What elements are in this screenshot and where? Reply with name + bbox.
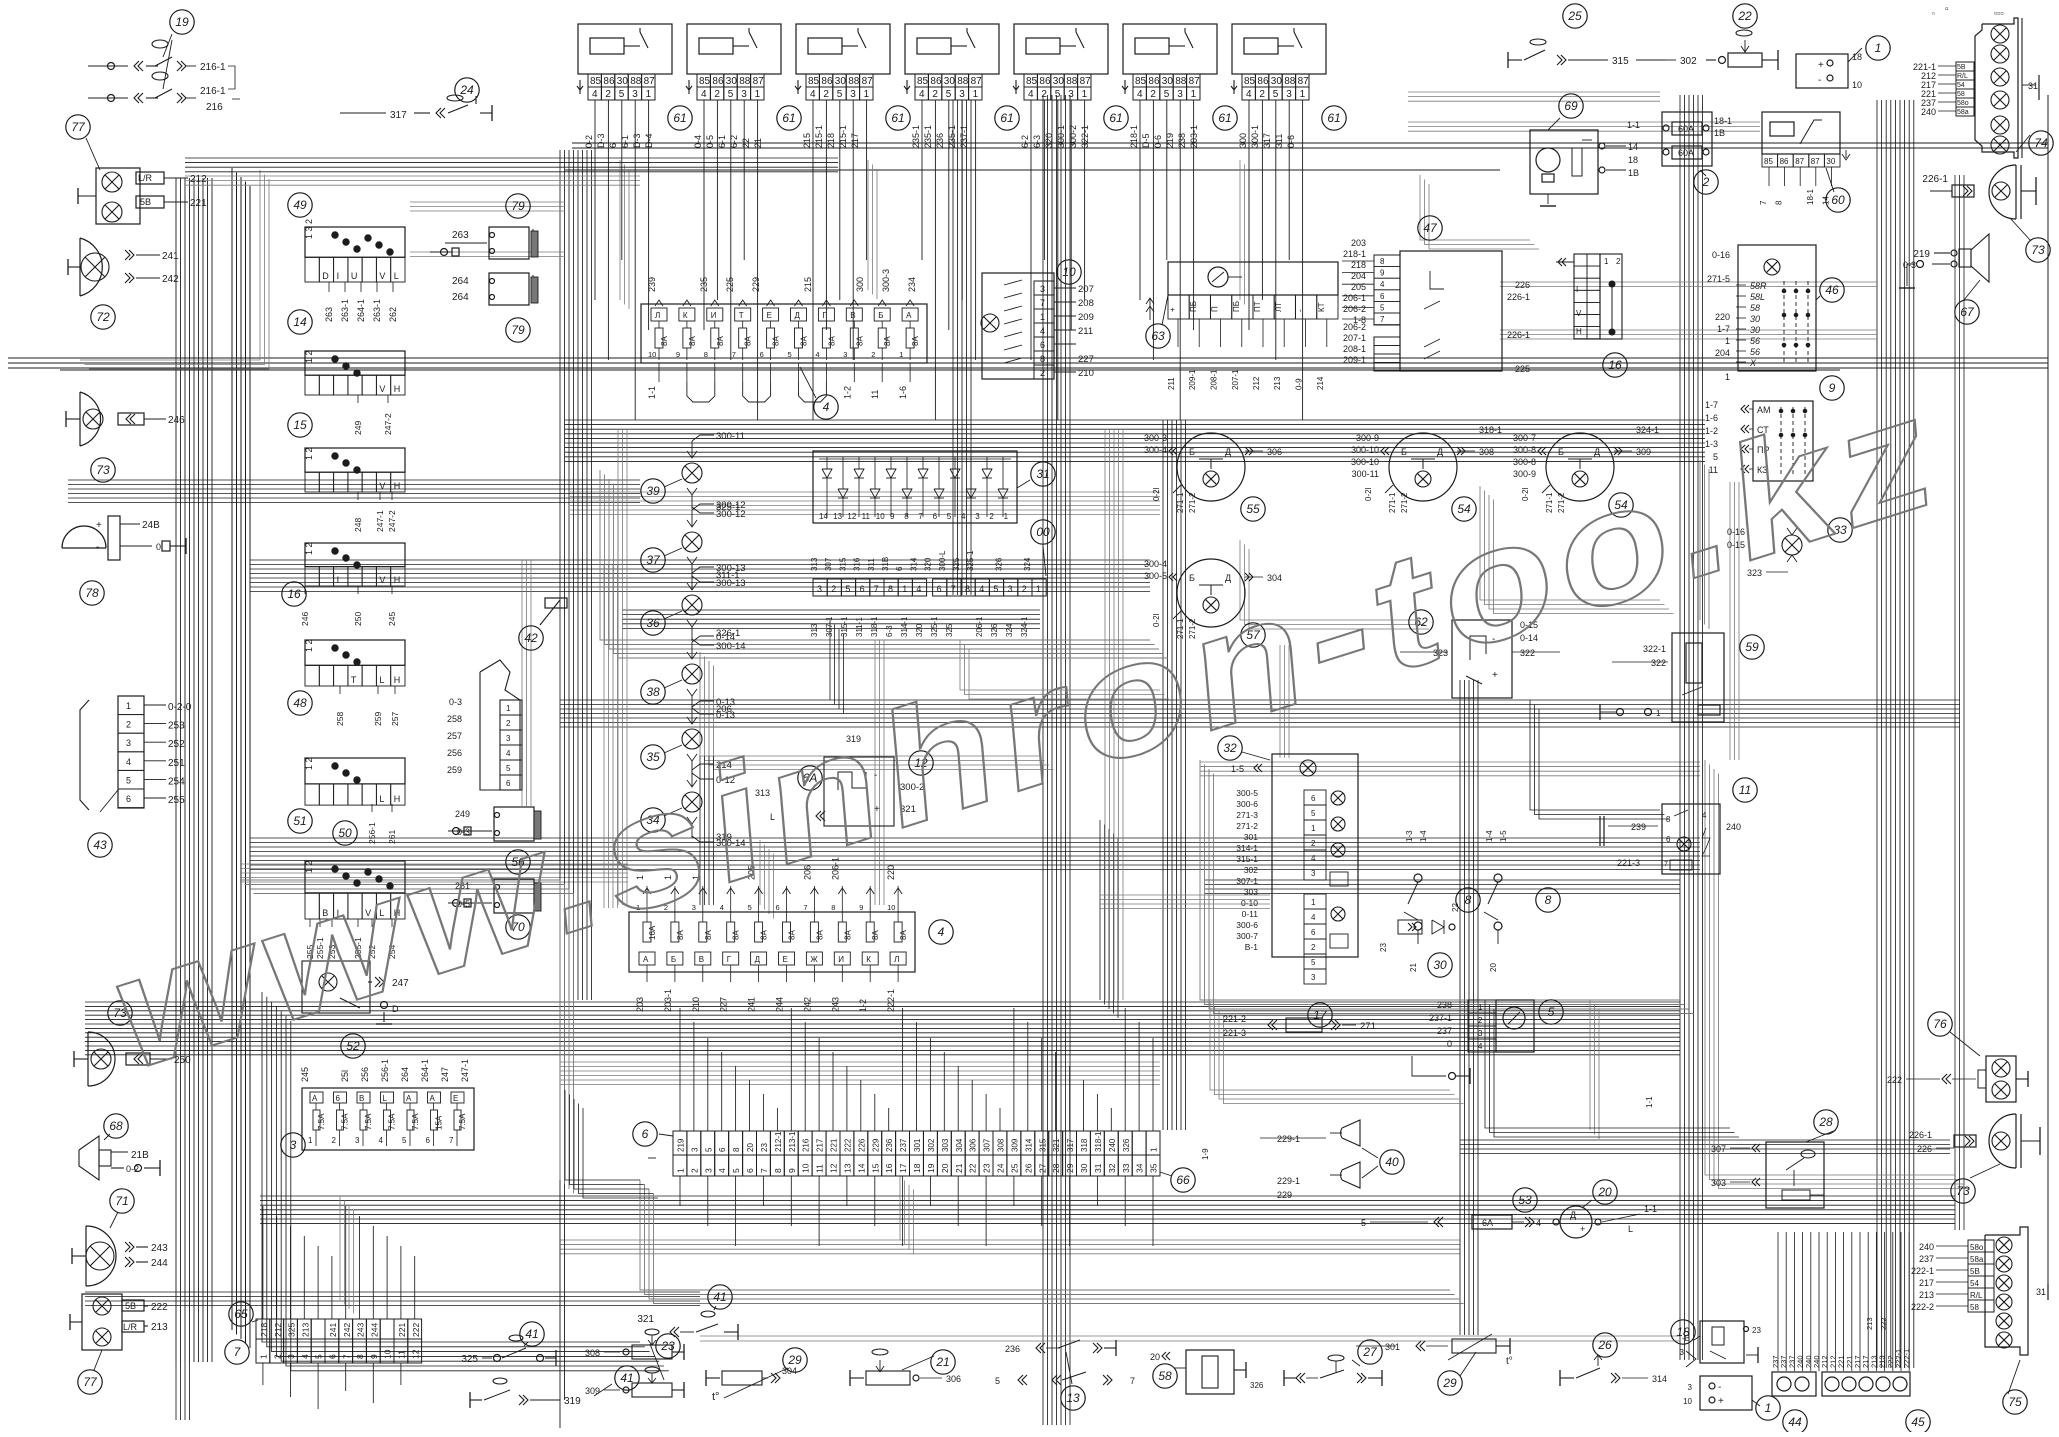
svg-text:5: 5 [995, 1376, 1000, 1386]
svg-text:31B: 31B [881, 557, 890, 571]
svg-text:77: 77 [83, 1375, 98, 1389]
svg-text:259: 259 [447, 765, 462, 775]
svg-text:ПБ: ПБ [1232, 301, 1241, 312]
svg-text:257: 257 [447, 731, 462, 741]
svg-text:248: 248 [353, 518, 363, 532]
svg-text:1: 1 [506, 704, 511, 713]
svg-text:246: 246 [168, 415, 185, 426]
svg-text:30: 30 [726, 76, 738, 87]
svg-text:30: 30 [1826, 157, 1835, 166]
svg-text:203: 203 [1351, 238, 1366, 248]
svg-text:300-10: 300-10 [1351, 445, 1379, 455]
svg-text:247-2: 247-2 [387, 510, 397, 532]
svg-text:2: 2 [689, 1168, 699, 1173]
svg-text:60A: 60A [1678, 148, 1694, 158]
svg-text:215: 215 [802, 133, 812, 148]
svg-text:218: 218 [259, 1323, 269, 1337]
svg-text:31: 31 [1093, 1163, 1103, 1173]
svg-text:308: 308 [585, 1348, 600, 1358]
svg-text:К: К [866, 955, 871, 964]
svg-text:66: 66 [1176, 1173, 1190, 1187]
svg-text:1B: 1B [1628, 168, 1639, 178]
svg-text:235-1: 235-1 [923, 125, 933, 148]
svg-text:4: 4 [1311, 913, 1316, 922]
svg-text:204: 204 [1715, 348, 1730, 358]
svg-text:203: 203 [635, 997, 645, 1012]
svg-text:4: 4 [379, 1136, 384, 1145]
svg-text:300-4: 300-4 [1144, 445, 1167, 455]
svg-text:0-5: 0-5 [705, 135, 715, 148]
svg-text:3: 3 [1688, 1383, 1693, 1392]
svg-text:307: 307 [824, 557, 833, 571]
svg-text:219: 219 [1913, 249, 1930, 260]
svg-text:7: 7 [1040, 298, 1045, 308]
svg-text:21B: 21B [131, 1150, 149, 1161]
svg-text:3: 3 [1680, 1348, 1685, 1357]
svg-text:4: 4 [1137, 89, 1143, 100]
svg-text:88: 88 [630, 76, 642, 87]
svg-text:58: 58 [1957, 91, 1965, 98]
svg-text:258: 258 [335, 712, 345, 726]
svg-text:8A: 8A [688, 336, 697, 346]
svg-text:6: 6 [1380, 292, 1385, 301]
svg-text:72: 72 [96, 310, 110, 324]
svg-text:87: 87 [971, 76, 983, 87]
svg-text:47: 47 [1423, 221, 1438, 235]
svg-text:1: 1 [1478, 1003, 1483, 1012]
svg-text:E: E [453, 1094, 458, 1103]
svg-text:15: 15 [870, 1163, 880, 1173]
svg-text:218: 218 [826, 133, 836, 148]
svg-text:6: 6 [1666, 835, 1671, 844]
svg-text:48: 48 [293, 696, 307, 710]
svg-text:324-1: 324-1 [1020, 616, 1029, 637]
svg-text:29: 29 [1065, 1163, 1075, 1173]
svg-text:22: 22 [741, 138, 751, 148]
svg-text:257: 257 [390, 712, 400, 726]
svg-text:3: 3 [843, 350, 847, 359]
svg-text:226-1: 226-1 [1909, 1130, 1932, 1140]
svg-text:22: 22 [968, 1163, 978, 1173]
svg-text:7.5A: 7.5A [317, 1113, 326, 1130]
svg-text:311: 311 [867, 558, 876, 571]
svg-text:L: L [383, 1094, 388, 1103]
svg-text:30: 30 [1750, 325, 1760, 335]
svg-text:213: 213 [300, 1323, 310, 1337]
svg-text:Д: Д [1570, 1210, 1576, 1220]
svg-text:73: 73 [1956, 1184, 1970, 1198]
svg-text:8: 8 [1545, 893, 1552, 907]
svg-text:313: 313 [810, 557, 819, 571]
svg-text:10: 10 [887, 903, 895, 912]
svg-text:8A: 8A [800, 336, 809, 346]
svg-text:5B: 5B [1970, 1267, 1980, 1276]
svg-text:4: 4 [1246, 89, 1252, 100]
svg-text:9: 9 [369, 1354, 379, 1359]
svg-text:249: 249 [353, 421, 363, 435]
svg-text:23: 23 [982, 1163, 992, 1173]
svg-text:220: 220 [1715, 312, 1730, 322]
svg-text:264: 264 [452, 276, 469, 287]
svg-text:300-6: 300-6 [1236, 799, 1258, 809]
svg-text:3: 3 [286, 1354, 296, 1359]
svg-text:206-1: 206-1 [975, 616, 984, 637]
svg-text:2: 2 [1259, 89, 1265, 100]
svg-text:314: 314 [1024, 1138, 1033, 1152]
svg-text:217: 217 [850, 133, 860, 148]
svg-text:243: 243 [830, 997, 840, 1012]
svg-text:7: 7 [918, 512, 923, 521]
svg-text:213: 213 [1865, 1317, 1874, 1330]
svg-text:225: 225 [1515, 364, 1530, 374]
svg-text:1: 1 [1604, 257, 1609, 266]
svg-text:222-1: 222-1 [1911, 1266, 1934, 1276]
svg-text:0-11: 0-11 [1242, 909, 1259, 919]
svg-text:65: 65 [234, 1307, 248, 1321]
svg-text:210: 210 [1078, 368, 1094, 379]
svg-text:244: 244 [151, 1258, 168, 1269]
svg-text:8A: 8A [843, 930, 852, 940]
svg-text:25: 25 [1009, 1163, 1019, 1173]
svg-text:2: 2 [871, 350, 875, 359]
svg-text:10: 10 [1062, 265, 1076, 279]
svg-text:300-9: 300-9 [1356, 433, 1379, 443]
svg-text:7: 7 [1130, 1376, 1135, 1386]
svg-text:262: 262 [388, 307, 398, 322]
svg-text:315: 315 [1038, 1138, 1047, 1152]
svg-text:2: 2 [1022, 584, 1027, 594]
svg-text:49: 49 [293, 198, 307, 212]
svg-text:60A: 60A [1678, 124, 1694, 134]
svg-text:322-1: 322-1 [1643, 644, 1666, 654]
svg-text:8: 8 [1465, 893, 1472, 907]
svg-text:10: 10 [1852, 80, 1862, 90]
svg-text:3: 3 [817, 584, 822, 594]
svg-text:2: 2 [1041, 89, 1047, 100]
svg-text:1-6: 1-6 [898, 386, 908, 399]
svg-text:218-1: 218-1 [1129, 125, 1139, 148]
svg-text:227: 227 [1078, 354, 1094, 365]
svg-text:8A: 8A [883, 336, 892, 346]
svg-text:216-1: 216-1 [200, 86, 226, 97]
svg-text:264-1: 264-1 [420, 1059, 430, 1082]
svg-text:250: 250 [353, 612, 363, 626]
svg-text:L/R: L/R [123, 1322, 138, 1332]
svg-text:215-1: 215-1 [838, 125, 848, 148]
svg-text:85: 85 [917, 76, 929, 87]
svg-text:255: 255 [168, 795, 185, 806]
svg-text:251: 251 [168, 758, 185, 769]
svg-text:314-1: 314-1 [900, 616, 909, 637]
svg-text:5: 5 [506, 764, 511, 773]
svg-text:75: 75 [2008, 1395, 2022, 1409]
svg-text:263: 263 [324, 307, 334, 322]
svg-text:300-11: 300-11 [716, 431, 745, 442]
svg-text:304: 304 [955, 1138, 964, 1152]
svg-text:А: А [643, 955, 649, 964]
svg-text:88: 88 [1175, 76, 1187, 87]
svg-text:14: 14 [1628, 142, 1638, 152]
svg-text:20: 20 [746, 1143, 755, 1152]
svg-text:88: 88 [957, 76, 969, 87]
svg-text:24: 24 [996, 1163, 1006, 1173]
svg-text:5: 5 [704, 1147, 713, 1152]
svg-text:-: - [1818, 75, 1821, 86]
svg-text:241: 241 [328, 1323, 338, 1337]
svg-text:1: 1 [1725, 372, 1730, 382]
svg-text:4: 4 [701, 89, 707, 100]
svg-text:8A: 8A [760, 930, 769, 940]
svg-text:23: 23 [660, 1339, 675, 1353]
svg-text:6: 6 [328, 1354, 338, 1359]
svg-text:300-1: 300-1 [1250, 125, 1260, 148]
svg-text:207-1: 207-1 [1231, 369, 1240, 390]
svg-text:240: 240 [1108, 1138, 1117, 1152]
svg-text:58R: 58R [1750, 281, 1767, 291]
svg-text:235: 235 [699, 277, 709, 292]
svg-text:R/L: R/L [1957, 73, 1968, 80]
svg-text:271-3: 271-3 [1236, 810, 1258, 820]
svg-text:61: 61 [891, 111, 904, 125]
svg-text:325: 325 [287, 1323, 297, 1337]
svg-text:68: 68 [109, 1119, 123, 1133]
svg-text:1: 1 [1082, 89, 1088, 100]
svg-text:4: 4 [823, 400, 830, 414]
svg-text:78: 78 [85, 586, 99, 600]
svg-text:5: 5 [619, 89, 625, 100]
svg-text:86: 86 [1148, 76, 1160, 87]
svg-text:23: 23 [760, 1143, 769, 1152]
svg-text:208-1: 208-1 [1210, 369, 1219, 390]
svg-text:H: H [394, 794, 401, 804]
svg-text:+: + [1580, 1224, 1585, 1234]
svg-text:L: L [394, 271, 399, 281]
svg-text:8A: 8A [855, 336, 864, 346]
svg-text:B-1: B-1 [1245, 942, 1259, 952]
svg-text:213: 213 [1273, 376, 1282, 390]
svg-text:263-1: 263-1 [340, 299, 350, 322]
svg-text:300-7: 300-7 [1513, 433, 1536, 443]
svg-text:264-1: 264-1 [356, 299, 366, 322]
svg-text:6: 6 [1040, 340, 1045, 350]
svg-text:15A: 15A [435, 1115, 444, 1130]
svg-text:10: 10 [801, 1163, 811, 1173]
svg-text:86: 86 [603, 76, 615, 87]
svg-text:Д: Д [795, 311, 801, 320]
svg-text:1-5: 1-5 [1499, 830, 1508, 842]
svg-text:A: A [430, 1094, 436, 1103]
svg-text:Д: Д [1225, 447, 1231, 457]
svg-text:21: 21 [1409, 963, 1418, 972]
svg-text:303: 303 [941, 1138, 950, 1152]
svg-text:-: - [96, 542, 99, 553]
svg-text:4: 4 [717, 1168, 727, 1173]
svg-text:308: 308 [1479, 447, 1494, 457]
svg-text:307: 307 [1711, 1144, 1726, 1154]
svg-text:3: 3 [1008, 584, 1013, 594]
svg-text:1: 1 [1725, 336, 1730, 346]
svg-text:0-2l: 0-2l [1152, 487, 1161, 501]
svg-text:3: 3 [1177, 89, 1183, 100]
svg-text:311-1: 311-1 [716, 570, 740, 581]
svg-text:X: X [1749, 358, 1757, 368]
svg-text:I: I [337, 575, 340, 585]
svg-text:2: 2 [932, 89, 938, 100]
svg-text:271-1: 271-1 [1388, 492, 1397, 513]
svg-text:23: 23 [1379, 943, 1388, 952]
svg-text:306: 306 [1267, 447, 1282, 457]
svg-text:61: 61 [1327, 111, 1340, 125]
svg-text:К: К [683, 311, 688, 320]
svg-text:213: 213 [151, 1322, 168, 1333]
svg-text:12: 12 [847, 512, 856, 521]
svg-text:38: 38 [646, 685, 660, 699]
svg-text:214: 214 [1316, 376, 1325, 390]
svg-text:7: 7 [759, 1168, 769, 1173]
svg-text:53: 53 [1518, 1193, 1532, 1207]
svg-text:52: 52 [346, 1039, 360, 1053]
svg-text:309: 309 [585, 1386, 600, 1396]
svg-text:7.5A: 7.5A [341, 1113, 350, 1130]
svg-text:8A: 8A [911, 336, 920, 346]
svg-text:7: 7 [874, 584, 879, 594]
svg-text:Л: Л [894, 955, 899, 964]
svg-text:14: 14 [819, 512, 828, 521]
svg-text:19: 19 [926, 1163, 936, 1173]
svg-text:24B: 24B [142, 520, 160, 531]
svg-text:7.5A: 7.5A [388, 1113, 397, 1130]
svg-text:16: 16 [884, 1163, 894, 1173]
svg-text:234: 234 [907, 277, 917, 292]
svg-text:L: L [379, 794, 384, 804]
svg-text:0-9: 0-9 [1295, 378, 1304, 390]
svg-text:37: 37 [646, 553, 661, 567]
svg-text:324-1: 324-1 [1636, 425, 1659, 435]
svg-text:20: 20 [940, 1163, 950, 1173]
svg-text:1 2: 1 2 [304, 757, 314, 770]
svg-text:Е: Е [783, 955, 788, 964]
svg-text:61: 61 [1109, 111, 1122, 125]
svg-text:241: 241 [162, 251, 179, 262]
svg-text:14: 14 [1821, 196, 1830, 205]
svg-text:87: 87 [753, 76, 765, 87]
svg-text:4: 4 [126, 757, 131, 767]
svg-text:229-1: 229-1 [1277, 1176, 1300, 1186]
svg-text:1-1: 1-1 [647, 386, 657, 399]
svg-text:302: 302 [1680, 56, 1697, 67]
svg-text:30: 30 [835, 76, 847, 87]
svg-text:6: 6 [126, 794, 131, 804]
svg-text:221-3: 221-3 [1223, 1028, 1246, 1038]
svg-text:2: 2 [714, 89, 720, 100]
svg-text:1: 1 [1191, 89, 1197, 100]
svg-text:6: 6 [426, 1136, 431, 1145]
svg-text:7: 7 [341, 1354, 351, 1359]
svg-text:326: 326 [990, 623, 999, 637]
svg-text:5: 5 [837, 89, 843, 100]
svg-text:H: H [394, 481, 401, 491]
svg-text:6-1: 6-1 [717, 135, 727, 148]
svg-text:Б: Б [1401, 447, 1407, 457]
svg-text:23: 23 [1752, 1326, 1761, 1335]
svg-text:9: 9 [676, 350, 680, 359]
svg-text:3: 3 [690, 1147, 699, 1152]
svg-text:-: - [1296, 309, 1305, 312]
svg-text:3: 3 [850, 89, 856, 100]
svg-text:8: 8 [1040, 354, 1045, 364]
svg-text:318: 318 [1080, 1138, 1089, 1152]
svg-text:H: H [394, 384, 401, 394]
svg-text:4: 4 [1478, 1042, 1483, 1051]
svg-text:1: 1 [1765, 1401, 1772, 1415]
svg-text:8: 8 [904, 512, 909, 521]
svg-text:259: 259 [373, 712, 383, 726]
svg-text:8A: 8A [772, 336, 781, 346]
svg-text:33: 33 [1121, 1163, 1131, 1173]
svg-text:2: 2 [831, 584, 836, 594]
svg-text:315: 315 [838, 557, 847, 571]
svg-text:2: 2 [1150, 89, 1156, 100]
svg-text:240: 240 [1919, 1242, 1934, 1252]
svg-text:6: 6 [608, 143, 618, 148]
svg-text:271: 271 [1360, 1021, 1376, 1032]
svg-text:3: 3 [1068, 89, 1074, 100]
svg-text:235-1: 235-1 [947, 125, 957, 148]
svg-text:Л: Л [655, 311, 660, 320]
svg-text:254: 254 [168, 776, 185, 787]
svg-text:8A: 8A [744, 336, 753, 346]
svg-text:324: 324 [1005, 623, 1014, 637]
svg-text:9: 9 [787, 1168, 797, 1173]
svg-text:77: 77 [71, 120, 86, 134]
svg-text:229: 229 [751, 277, 761, 292]
svg-text:13: 13 [843, 1163, 853, 1173]
svg-text:2: 2 [1702, 175, 1710, 189]
svg-text:300-2: 300-2 [1068, 125, 1078, 148]
svg-text:87: 87 [1189, 76, 1201, 87]
svg-text:28: 28 [1818, 1115, 1833, 1129]
svg-text:5: 5 [731, 1168, 741, 1173]
svg-text:1 2: 1 2 [304, 542, 314, 555]
svg-text:1: 1 [308, 1136, 313, 1145]
svg-text:D-3: D-3 [596, 133, 606, 148]
svg-text:I: I [1576, 285, 1578, 294]
svg-text:300-7: 300-7 [1236, 931, 1258, 941]
svg-text:86: 86 [930, 76, 942, 87]
svg-text:5: 5 [788, 350, 792, 359]
svg-text:11: 11 [397, 1350, 407, 1359]
svg-text:229: 229 [1277, 1190, 1292, 1200]
svg-text:216-1: 216-1 [200, 62, 226, 73]
svg-text:271-5: 271-5 [1707, 274, 1730, 284]
svg-text:6-2: 6-2 [729, 135, 739, 148]
svg-text:58o: 58o [1970, 1243, 1984, 1252]
svg-text:219: 219 [1165, 133, 1175, 148]
svg-text:30: 30 [617, 76, 629, 87]
svg-text:7.5A: 7.5A [458, 1113, 467, 1130]
svg-text:326-1: 326-1 [716, 628, 740, 639]
svg-text:325: 325 [952, 557, 961, 571]
svg-text:1 3 2: 1 3 2 [304, 219, 314, 239]
svg-text:0-3: 0-3 [449, 697, 462, 707]
svg-text:4: 4 [592, 89, 598, 100]
svg-text:46: 46 [1825, 283, 1839, 297]
svg-text:86: 86 [1780, 157, 1789, 166]
svg-text:226: 226 [1917, 1144, 1932, 1154]
svg-text:222-1: 222-1 [1902, 1349, 1911, 1368]
svg-text:41: 41 [525, 1327, 538, 1341]
svg-text:245: 245 [387, 612, 397, 626]
